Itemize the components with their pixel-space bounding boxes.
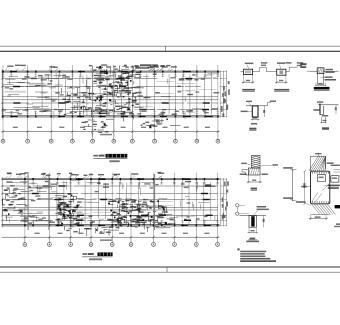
lower interior beam line y=220: [2, 219, 19, 221]
lower dimension text row: [35, 233, 40, 234]
upper interior annotation texture: [66, 76, 70, 77]
C-C beam body: [248, 168, 260, 175]
lower interior beam line y=215: [2, 214, 31, 216]
lower grid bubble 10: [216, 243, 220, 247]
S2 upper grid bubble: [236, 204, 239, 207]
D3 U-shaped beam below: [317, 73, 319, 84]
notes line 5 bold: [240, 260, 276, 262]
upper grid line x=175: [174, 65, 176, 132]
upper dense detail cluster: [88, 89, 90, 97]
D5 mid label: [322, 115, 328, 117]
lower interior beam line y=186: [2, 185, 31, 187]
S2 bottom dimension: [248, 227, 250, 233]
upper overall dimension text: [100, 134, 112, 136]
lower leader annotations above top chord: [20, 176, 22, 178]
lower grid line x=196: [195, 173, 197, 238]
C-C title: [251, 188, 257, 190]
C-C left-bottom text: [240, 174, 247, 176]
upper leader annotations above top chord: [152, 69, 154, 71]
upper grid line x=93: [92, 65, 94, 132]
upper joist lines: [5, 91, 27, 93]
lower grid line x=91: [90, 173, 92, 238]
D4 right vertical dimension: [263, 106, 265, 117]
S2 title lines: [250, 238, 256, 240]
upper bold beam segments on chords: [10, 71, 17, 72]
lower grid bubble 9: [194, 243, 198, 247]
upper dimension line: [2, 131, 220, 133]
upper grid bubble 9: [174, 139, 178, 143]
big detail right black bar: [335, 205, 340, 208]
big detail top hatch: [310, 155, 325, 157]
big detail inner diagonals: [312, 193, 319, 203]
lower dense detail cluster: [113, 220, 118, 222]
upper grid bubble 5: [91, 139, 95, 143]
upper grid line x=218: [217, 65, 219, 132]
big detail lower elevation text: [283, 197, 293, 199]
big detail main rounded rect: [311, 171, 330, 204]
D3 top slab line right: [324, 70, 339, 72]
lower grid bubble 3: [69, 243, 73, 247]
D3 dimension: [315, 83, 317, 87]
upper grid bubble 10: [195, 139, 199, 143]
D4 thick rect: [252, 106, 258, 117]
D1 title 1-1: [242, 89, 255, 91]
upper right edge vertical dimensions: [220, 71, 222, 118]
sheet inner border bottom line: [0, 266, 340, 268]
D3 top slab line left: [310, 70, 317, 72]
upper interior beam line y=78: [2, 78, 26, 80]
lower right edge vertical dimensions: [220, 178, 222, 226]
D3 right leader text: [326, 69, 334, 70]
lower dimension line: [2, 236, 220, 238]
D5 top text: [317, 101, 323, 102]
S2 lower grid bubble: [236, 212, 239, 215]
upper grid line x=114: [113, 65, 115, 132]
big detail left leader 250: [301, 186, 307, 188]
S2 beam rect: [239, 214, 266, 216]
D3 lower leader text: [325, 76, 333, 78]
D2 step line left: [273, 71, 277, 73]
lower grid line x=71: [70, 173, 72, 238]
upper grid line x=3: [2, 65, 4, 132]
D5 right vertical dimension: [335, 105, 337, 114]
C-C left steps: [242, 169, 248, 171]
top border divider tick: [165, 46, 167, 51]
lower plan title bold text bar: [98, 252, 113, 256]
lower interior annotation texture: [162, 211, 168, 212]
lower grid line x=174: [174, 173, 176, 238]
upper plan heavy grid line A: [92, 66, 94, 137]
upper grid bubble 11: [216, 139, 220, 143]
upper left edge vertical dimension: [1, 70, 3, 119]
upper bottom chord beam lines: [2, 115, 220, 117]
upper plan title bold text bar: [106, 154, 128, 158]
notes marker: [237, 248, 239, 250]
lower dense detail cluster: [97, 227, 99, 232]
upper corridor lines: [2, 96, 218, 98]
D4 right step: [266, 105, 268, 107]
big detail right bold text block: [328, 185, 340, 187]
lower grid bubble 2: [48, 243, 52, 247]
bottom border divider tick: [166, 267, 168, 272]
lower grid line x=131: [130, 173, 132, 238]
lower plan title scale text: [89, 258, 102, 260]
D1 step line right: [253, 71, 260, 73]
lower plan heavy grid line C: [154, 174, 156, 230]
big detail bottom hatch: [311, 204, 320, 215]
D2 leader text: [277, 62, 285, 64]
upper grid bubble 2: [26, 139, 30, 143]
D2 far right text: [297, 62, 303, 63]
lower grid line x=218: [217, 173, 219, 238]
D4 bottom dimension: [251, 117, 253, 120]
upper grid bubble 8: [153, 139, 157, 143]
lower column symbols: [24, 178, 26, 180]
upper grid line x=72: [71, 65, 73, 132]
detail D5 corner section: [318, 104, 339, 106]
lower left edge vertical dimension: [1, 177, 3, 227]
upper top chord beam lines: [2, 70, 220, 72]
lower grid line x=112: [111, 173, 113, 238]
D2 title 2-2: [274, 89, 289, 91]
lower overall dimension text: [100, 239, 112, 241]
lower grid bubble 6: [129, 243, 133, 247]
lower grid bubble 4: [89, 243, 93, 247]
big detail inner rect: [317, 174, 325, 181]
C-C right text: [273, 164, 278, 166]
D5 left text: [313, 109, 319, 111]
C-C bottom dimension: [247, 176, 249, 184]
lower grid bubble 1: [23, 243, 27, 247]
lower bold beam segments on chords: [56, 225, 63, 226]
notes line 3: [240, 256, 265, 258]
lower grid line x=154: [153, 173, 155, 238]
big detail bottom-left leader: [296, 201, 305, 203]
sheet outer border bottom line: [0, 271, 340, 273]
lower grid bubble 8: [173, 243, 177, 247]
lower dense detail cluster: [62, 216, 66, 217]
D5 title: [322, 127, 329, 129]
title block of upper plan: [93, 155, 98, 157]
upper grid line x=155: [154, 65, 156, 132]
D3 note text block: [300, 63, 306, 65]
C-C hatched column: [251, 156, 260, 169]
big detail right lower ticks: [334, 169, 340, 171]
lower bottom chord beam lines: [2, 224, 220, 226]
upper grid line x=51: [50, 65, 52, 132]
upper grid bubble 1: [1, 139, 5, 143]
lower corridor lines: [2, 206, 218, 208]
upper grid bubble 4: [71, 139, 75, 143]
D4 right step text: [270, 101, 276, 102]
title block of lower plan: [83, 253, 88, 255]
D4 sub label: [251, 123, 257, 125]
lower interior beam line y=200: [2, 199, 33, 201]
big detail right small box: [331, 175, 339, 182]
detail D1 beam section 1-1: [244, 69, 253, 74]
upper dense detail cluster: [119, 96, 121, 98]
upper grid bubble 7: [131, 139, 135, 143]
upper grid line x=28: [27, 65, 29, 132]
upper dense detail cluster: [172, 125, 181, 127]
upper grid line x=197: [196, 65, 198, 132]
C-C top-left text: [241, 163, 246, 165]
D1 dimension below: [243, 75, 245, 84]
upper plan title scale text: [109, 160, 119, 162]
upper dimension text row: [13, 127, 18, 128]
upper interior beam line y=110: [2, 109, 42, 111]
lower dense detail cluster: [18, 210, 22, 211]
lower grid line x=25: [24, 173, 26, 238]
lower plan title underline: [82, 256, 112, 258]
big detail left elevation line: [291, 169, 293, 201]
upper left busy region lines: [52, 100, 56, 101]
D1 step line left: [241, 71, 244, 73]
lower plan heavy grid line A: [27, 174, 29, 230]
lower interior beam line y=194: [2, 193, 28, 195]
D4 title: [249, 128, 256, 130]
lower plan heavy grid line B: [48, 174, 50, 230]
notes line 4: [240, 258, 270, 260]
D4 left label text: [241, 111, 248, 113]
detail D2 beam section 2-2: [277, 69, 286, 75]
D1 leader text: [245, 63, 254, 65]
S2 bubble stem: [236, 207, 238, 212]
big detail bottom dimension: [309, 215, 311, 220]
S2 leader text: [257, 206, 267, 208]
lower grid bubble 5: [110, 243, 114, 247]
upper plan note text: [140, 64, 151, 66]
upper grid bubble 3: [49, 139, 53, 143]
upper grid bubble 6: [112, 139, 116, 143]
D3 hatched box: [317, 68, 324, 74]
D5 lower legs: [321, 117, 323, 123]
D5 thick vertical: [319, 104, 321, 115]
C-C right-bottom text: [262, 174, 268, 176]
upper partition walls: [41, 75, 43, 113]
S2 black bar: [251, 216, 255, 226]
lower left busy region lines: [35, 220, 52, 222]
detail D4 column section: [246, 105, 266, 107]
D3 title bar: [314, 87, 330, 90]
big detail upper elevation text: [283, 167, 293, 169]
D1 step text: [261, 62, 267, 63]
sheet outer border top line: [0, 45, 340, 47]
upper column symbols: [2, 71, 4, 73]
upper plan heavy grid line B: [113, 66, 115, 137]
D4 top left text: [246, 101, 252, 102]
lower joist lines: [26, 188, 48, 190]
notes line 1: [240, 251, 266, 253]
big detail vertical dim: [304, 171, 306, 204]
big detail right texts: [327, 162, 334, 164]
D2 dimension below: [276, 75, 278, 83]
upper interior beam line y=103: [2, 102, 29, 104]
lower grid bubble 7: [152, 243, 156, 247]
upper interior beam line y=86: [2, 86, 24, 88]
D2 step line right: [286, 71, 289, 73]
lower partition walls: [56, 182, 58, 219]
lower top chord beam lines: [2, 178, 220, 180]
upper grid line x=132: [131, 65, 133, 132]
sheet inner border top line: [0, 50, 340, 52]
notes line 2: [240, 253, 265, 255]
big detail far right text: [336, 223, 340, 225]
big detail top tick: [318, 153, 320, 157]
big detail rebar dots: [312, 172, 313, 173]
upper dense detail cluster: [82, 122, 87, 123]
upper plan title underline: [93, 158, 127, 160]
S2 right dimension: [263, 216, 265, 228]
D2 step text: [285, 62, 291, 63]
lower grid line x=49: [48, 173, 50, 238]
